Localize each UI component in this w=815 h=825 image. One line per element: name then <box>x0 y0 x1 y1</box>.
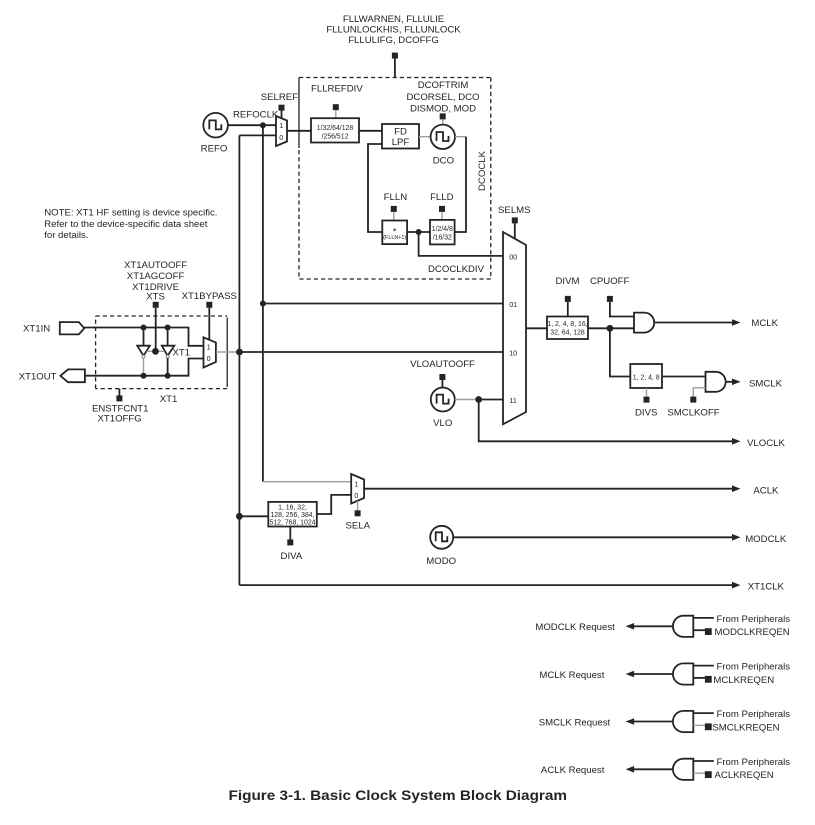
svg-text:1: 1 <box>354 480 358 489</box>
wire SMCLKOFF elbow <box>693 388 705 397</box>
svg-text:DCO: DCO <box>433 155 454 166</box>
svg-text:DCOFTRIM: DCOFTRIM <box>418 80 469 91</box>
wire DIVM to MCLK gate <box>588 327 634 329</box>
net label XT1 controls <box>124 260 187 302</box>
control square FLLN <box>391 206 397 221</box>
control square SELREF <box>279 105 285 119</box>
wire ACLK output <box>364 485 740 492</box>
svg-text:ACLKREQEN: ACLKREQEN <box>715 770 774 781</box>
node XT1 output junction <box>236 349 243 356</box>
svg-text:LPF: LPF <box>392 137 410 148</box>
mux SELREF <box>276 116 287 146</box>
wire SELMS output to DIVM <box>526 327 547 329</box>
wire FD to DCO <box>419 136 431 138</box>
svg-text:0: 0 <box>279 133 283 142</box>
net label ENSTFCNT1 XT1OFFG <box>92 404 149 425</box>
control square DIVA <box>287 527 293 546</box>
svg-text:Figure 3-1. Basic Clock System: Figure 3-1. Basic Clock System Block Dia… <box>229 788 568 803</box>
svg-text:FLLD: FLLD <box>430 192 454 203</box>
wire XT1CLK vertical rail <box>238 135 240 585</box>
svg-text:11: 11 <box>509 396 516 405</box>
net label DCOFTRIM group <box>406 80 479 115</box>
control square SELMS <box>512 217 518 238</box>
multiplier FLLN box <box>382 221 407 245</box>
node DCOCLKDIV junction <box>416 229 422 235</box>
svg-text:for details.: for details. <box>44 230 88 241</box>
wire XT1IN to buffers and mux input 1 <box>84 328 203 346</box>
svg-text:From Peripherals: From Peripherals <box>717 662 791 673</box>
svg-text:ACLK: ACLK <box>753 485 779 496</box>
control square FLLREFDIV <box>333 104 339 118</box>
svg-text:DCOCLK: DCOCLK <box>477 150 488 191</box>
FD LPF box U-FD <box>382 124 419 149</box>
svg-text:1: 1 <box>279 121 283 130</box>
svg-text:/256/512: /256/512 <box>322 134 349 141</box>
wire VLOCLK <box>479 400 741 445</box>
svg-text:512, 768, 1024: 512, 768, 1024 <box>270 520 316 527</box>
node DIVA junction <box>236 513 243 520</box>
wire to DIVA <box>239 515 268 517</box>
svg-text:01: 01 <box>509 300 517 309</box>
wire DCO output to FLLD <box>455 137 466 232</box>
mux XT1BYPASS <box>204 337 216 367</box>
svg-text:MODCLKREQEN: MODCLKREQEN <box>715 627 790 638</box>
control square FLLD <box>439 206 445 220</box>
svg-text:From Peripherals: From Peripherals <box>717 757 791 768</box>
node VLO junction <box>475 396 482 403</box>
wire SELREF mux output to FLLREFDIV <box>287 130 311 132</box>
and gate SMCLK <box>706 372 726 392</box>
control square XT1BYPASS <box>206 302 212 341</box>
svg-text:XT1IN: XT1IN <box>23 324 50 335</box>
control square SMCLKOFF <box>690 397 696 403</box>
wire XT1 mux output <box>216 351 503 353</box>
wire FLLN to FLLD <box>407 231 430 233</box>
svg-text:DIVA: DIVA <box>281 551 303 562</box>
node MCLK junction <box>607 325 614 332</box>
svg-text:FLLN: FLLN <box>384 192 408 203</box>
svg-text:MODCLK: MODCLK <box>745 534 787 545</box>
svg-text:1, 2, 4, 8: 1, 2, 4, 8 <box>633 374 660 381</box>
wire VLO to SELMS 11 <box>455 399 503 401</box>
svg-text:128, 256, 384,: 128, 256, 384, <box>270 512 314 519</box>
svg-text:FLLUNLOCKHIS, FLLUNLOCK: FLLUNLOCKHIS, FLLUNLOCK <box>326 24 461 35</box>
svg-text:/16/32: /16/32 <box>433 235 452 242</box>
svg-text:0: 0 <box>207 354 211 363</box>
wire XT1CLK output <box>239 582 740 589</box>
node SELMS 01 junction <box>260 301 266 307</box>
svg-text:SELREF: SELREF <box>261 92 298 103</box>
svg-text:MODO: MODO <box>426 556 456 567</box>
and gate SMCLK request <box>539 709 791 733</box>
port XT1IN <box>23 322 84 334</box>
svg-text:10: 10 <box>509 348 517 357</box>
wire MCLK to DIVS <box>610 328 630 376</box>
svg-text:XT1AGCOFF: XT1AGCOFF <box>127 271 185 282</box>
svg-text:XT1BYPASS: XT1BYPASS <box>182 291 237 302</box>
control square FLL status <box>392 53 398 78</box>
and gate MCLK <box>634 313 654 333</box>
wire REFO to SELREF mux <box>228 124 276 126</box>
oscillator REFO <box>201 113 228 155</box>
control square ENSTFCNT1 <box>116 389 122 402</box>
wire DIVS to SMCLK gate <box>662 376 706 378</box>
node XT1OUT junction A2 <box>165 373 171 379</box>
wire FLLREFDIV to FD <box>359 130 382 132</box>
svg-text:VLOAUTOOFF: VLOAUTOOFF <box>410 359 475 370</box>
wire DIVA output to SELA input 0 <box>317 495 351 514</box>
wire SMCLK output <box>726 379 741 386</box>
wire amp control link <box>147 350 165 352</box>
oscillator VLO <box>431 388 455 429</box>
svg-text:REFO: REFO <box>201 143 228 154</box>
svg-text:XT1: XT1 <box>160 394 178 405</box>
svg-text:MCLK: MCLK <box>751 318 778 329</box>
and gate MODCLK request <box>535 614 790 638</box>
svg-text:VLOCLK: VLOCLK <box>747 438 785 449</box>
wire MODCLK output <box>453 534 740 541</box>
divider DIVS box <box>630 364 662 388</box>
control square SELA <box>355 501 361 516</box>
svg-text:SELMS: SELMS <box>498 205 531 216</box>
svg-text:DIVM: DIVM <box>556 276 580 287</box>
svg-text:From Peripherals: From Peripherals <box>717 709 791 720</box>
svg-text:XT1: XT1 <box>173 348 191 359</box>
svg-text:1/2/4/8: 1/2/4/8 <box>432 226 453 233</box>
svg-text:DCOCLKDIV: DCOCLKDIV <box>428 264 485 275</box>
control square XTS <box>153 302 159 352</box>
divider DIVA box <box>268 502 317 527</box>
svg-text:SMCLKOFF: SMCLKOFF <box>667 407 719 418</box>
svg-text:FLLREFDIV: FLLREFDIV <box>311 84 363 95</box>
svg-text:VLO: VLO <box>433 418 452 429</box>
port XT1OUT <box>19 369 85 382</box>
svg-text:DIVS: DIVS <box>635 407 657 418</box>
svg-text:FD: FD <box>394 126 407 137</box>
svg-text:00: 00 <box>509 252 517 261</box>
svg-text:32, 64, 128: 32, 64, 128 <box>550 330 585 337</box>
control square CPUOFF <box>607 296 634 317</box>
wire DCOCLKDIV to SELMS 00 <box>419 232 503 256</box>
svg-text:MCLK Request: MCLK Request <box>539 670 604 681</box>
svg-text:1, 2, 4, 8, 16,: 1, 2, 4, 8, 16, <box>547 321 587 328</box>
svg-text:SMCLKREQEN: SMCLKREQEN <box>712 722 779 733</box>
and gate MCLK request <box>539 662 790 686</box>
svg-text:MCLKREQEN: MCLKREQEN <box>713 675 774 686</box>
note text <box>44 208 217 242</box>
divider FLLREFDIV box <box>311 118 359 142</box>
svg-text:ACLK Request: ACLK Request <box>541 765 605 776</box>
node XT1IN junction A1 <box>141 325 147 331</box>
svg-text:XT1AUTOOFF: XT1AUTOOFF <box>124 260 187 271</box>
oscillator MODO <box>426 526 456 567</box>
buffer crystal amp A2 <box>162 328 175 376</box>
svg-text:SELA: SELA <box>346 521 371 532</box>
svg-text:FLLWARNEN, FLLULIE: FLLWARNEN, FLLULIE <box>343 14 444 25</box>
wire REFOCLK to SELA input 1 <box>263 481 351 483</box>
svg-text:1, 16, 32,: 1, 16, 32, <box>278 504 307 511</box>
net label FLL status signals <box>326 14 461 46</box>
oscillator DCO <box>431 125 455 167</box>
control square DIVS <box>644 388 650 403</box>
control square VLOAUTOOFF <box>439 374 445 388</box>
svg-text:1: 1 <box>207 343 211 352</box>
svg-text:SMCLK: SMCLK <box>749 378 783 389</box>
svg-text:SMCLK Request: SMCLK Request <box>539 717 611 728</box>
mux SELMS <box>503 232 526 424</box>
wire MCLK output <box>654 319 740 326</box>
svg-text:0: 0 <box>354 491 358 500</box>
wire XT1OUT to buffers and mux input 0 <box>85 359 204 376</box>
svg-text:REFOCLK: REFOCLK <box>233 109 279 120</box>
XT1 module dashed box <box>96 316 228 389</box>
wire FD feedback loop <box>368 144 382 232</box>
svg-text:1/32/64/128: 1/32/64/128 <box>317 125 354 132</box>
buffer crystal amp A1 <box>137 328 150 376</box>
svg-text:DISMOD, MOD: DISMOD, MOD <box>410 104 476 115</box>
wire REFOCLK to SELMS 01 <box>263 303 503 305</box>
svg-text:XT1CLK: XT1CLK <box>748 581 785 592</box>
svg-text:NOTE: XT1 HF setting is device: NOTE: XT1 HF setting is device specific. <box>44 208 217 219</box>
node XT1IN junction A2 <box>165 325 171 331</box>
control square DCO <box>440 113 446 124</box>
wire REFOCLK vertical rail <box>262 125 264 482</box>
svg-text:DCORSEL, DCO: DCORSEL, DCO <box>406 92 479 103</box>
node XTS control junction <box>152 348 159 355</box>
svg-text:From Peripherals: From Peripherals <box>717 614 791 625</box>
wire SELREF input 0 <box>239 134 276 136</box>
svg-text:XTS: XTS <box>146 292 165 303</box>
and gate ACLK request <box>541 757 790 781</box>
node XT1OUT junction A1 <box>141 373 147 379</box>
node REFOCLK junction <box>260 122 266 128</box>
svg-text:(FLLN+1): (FLLN+1) <box>383 235 406 241</box>
svg-text:∗: ∗ <box>392 228 397 234</box>
svg-text:Refer to the device-specific d: Refer to the device-specific data sheet <box>44 219 208 230</box>
mux SELA <box>351 474 364 504</box>
svg-text:CPUOFF: CPUOFF <box>590 276 630 287</box>
svg-text:XT1OFFG: XT1OFFG <box>97 414 141 425</box>
divider FLLD box <box>430 220 455 245</box>
svg-text:MODCLK Request: MODCLK Request <box>535 622 615 633</box>
control square DIVM <box>565 296 571 317</box>
FLL module dashed box <box>299 78 491 280</box>
svg-text:FLLULIFG, DCOFFG: FLLULIFG, DCOFFG <box>348 35 439 46</box>
svg-text:XT1OUT: XT1OUT <box>19 371 57 382</box>
divider DIVM box <box>547 317 588 340</box>
